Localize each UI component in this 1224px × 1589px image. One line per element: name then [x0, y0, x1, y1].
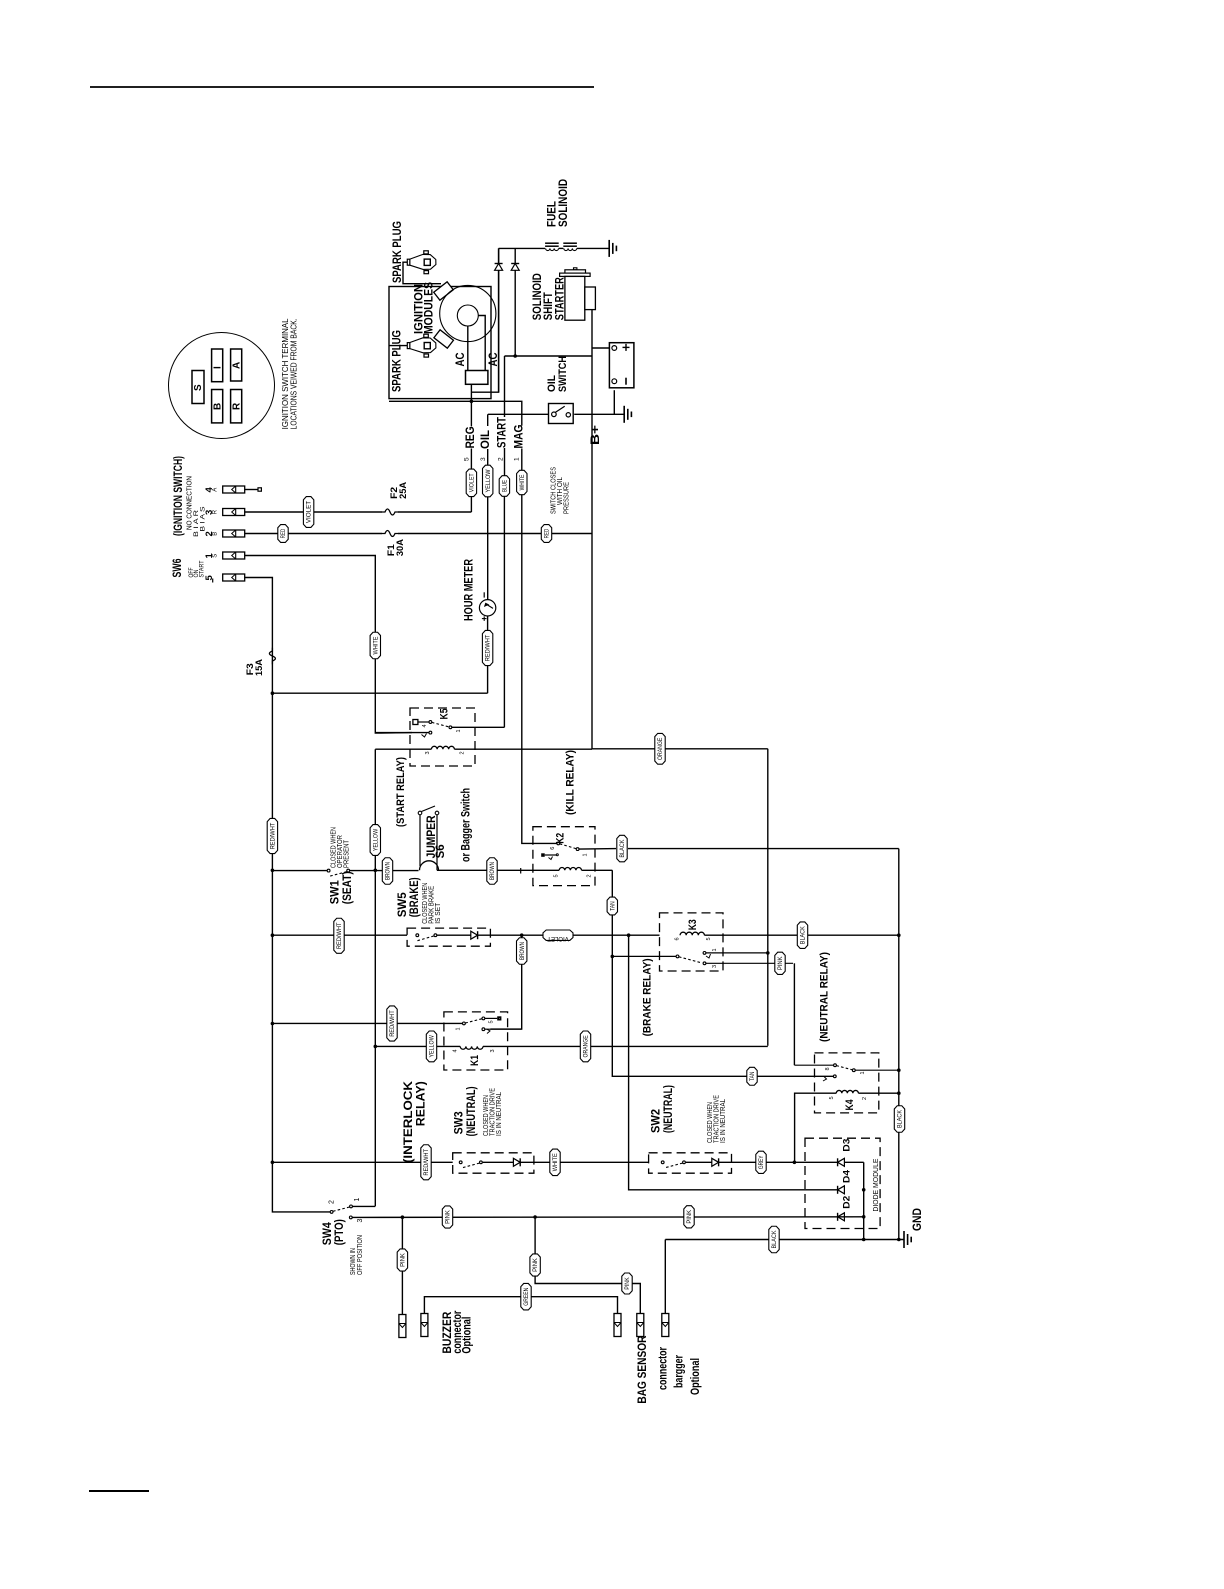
- svg-text:5: 5: [463, 457, 470, 461]
- svg-text:B: B: [212, 532, 218, 536]
- svg-text:WHITE: WHITE: [519, 475, 526, 491]
- svg-text:PRESSURE: PRESSURE: [564, 482, 571, 514]
- svg-text:BLACK: BLACK: [800, 925, 807, 944]
- svg-text:(BRAKE): (BRAKE): [409, 877, 421, 917]
- svg-text:START: START: [200, 560, 206, 577]
- svg-text:2: 2: [862, 1097, 868, 1100]
- svg-text:SHOWN IN: SHOWN IN: [350, 1248, 357, 1275]
- svg-text:D4: D4: [842, 1169, 853, 1183]
- svg-text:OIL: OIL: [480, 430, 492, 449]
- svg-text:5: 5: [489, 1020, 495, 1023]
- svg-text:SHIFT: SHIFT: [543, 292, 555, 320]
- svg-text:D3: D3: [842, 1139, 853, 1152]
- svg-text:1: 1: [456, 729, 462, 732]
- svg-text:3: 3: [357, 1219, 364, 1223]
- svg-text:15A: 15A: [254, 659, 265, 676]
- svg-text:2: 2: [587, 874, 593, 877]
- svg-text:2: 2: [497, 457, 504, 461]
- svg-text:IS IN NEUTRAL: IS IN NEUTRAL: [496, 1092, 503, 1136]
- svg-text:5: 5: [554, 874, 560, 877]
- svg-text:K3: K3: [687, 919, 699, 930]
- svg-text:(KILL RELAY): (KILL RELAY): [565, 750, 577, 815]
- svg-text:START: START: [497, 417, 509, 448]
- svg-text:A: A: [212, 488, 218, 492]
- svg-text:(BRAKE RELAY): (BRAKE RELAY): [642, 958, 654, 1036]
- svg-text:GREY: GREY: [758, 1155, 765, 1169]
- svg-text:PINK: PINK: [445, 1209, 452, 1224]
- svg-text:YELLOW: YELLOW: [429, 1035, 436, 1057]
- svg-text:B: B: [213, 403, 224, 410]
- svg-text:ORANGE: ORANGE: [583, 1035, 590, 1057]
- svg-text:(NEUTRAL): (NEUTRAL): [466, 1086, 478, 1136]
- svg-text:3: 3: [480, 457, 487, 461]
- svg-text:RELAY): RELAY): [414, 1081, 428, 1126]
- svg-text:BROWN: BROWN: [489, 862, 496, 880]
- svg-text:5: 5: [829, 1096, 835, 1099]
- svg-text:connector: connector: [658, 1347, 670, 1390]
- svg-text:SW5: SW5: [397, 892, 409, 918]
- svg-text:S: S: [212, 554, 218, 558]
- svg-text:(NEUTRAL): (NEUTRAL): [663, 1085, 675, 1133]
- svg-text:PINK: PINK: [686, 1209, 693, 1224]
- svg-text:PRESENT: PRESENT: [344, 839, 351, 868]
- svg-text:IS IN NEUTRAL: IS IN NEUTRAL: [720, 1099, 727, 1143]
- svg-text:VIOLET: VIOLET: [547, 935, 569, 942]
- svg-text:VIOLET: VIOLET: [306, 501, 313, 524]
- svg-text:B+: B+: [590, 425, 602, 445]
- svg-text:BLACK: BLACK: [619, 839, 626, 858]
- svg-text:RED/WHT: RED/WHT: [423, 1149, 430, 1176]
- svg-text:(PTO): (PTO): [334, 1219, 346, 1245]
- svg-text:SW4: SW4: [322, 1222, 334, 1246]
- svg-text:6: 6: [675, 937, 681, 940]
- svg-text:YELLOW: YELLOW: [372, 829, 379, 851]
- svg-text:5: 5: [706, 937, 712, 940]
- svg-text:I: I: [213, 366, 224, 369]
- svg-text:AC: AC: [455, 353, 467, 367]
- svg-text:or Bagger Switch: or Bagger Switch: [461, 788, 473, 862]
- svg-text:NO CONNECTION: NO CONNECTION: [187, 476, 194, 530]
- svg-text:1: 1: [712, 948, 718, 951]
- svg-text:1: 1: [456, 1027, 462, 1030]
- svg-text:8: 8: [825, 1067, 831, 1070]
- svg-text:B I A R: B I A R: [194, 509, 200, 537]
- svg-text:S: S: [193, 384, 204, 391]
- svg-text:2: 2: [460, 751, 466, 754]
- svg-text:SW1: SW1: [330, 880, 342, 905]
- svg-text:ORANGE: ORANGE: [657, 738, 664, 760]
- svg-text:3: 3: [712, 965, 718, 968]
- svg-text:BROWN: BROWN: [519, 942, 526, 960]
- svg-text:A: A: [232, 362, 243, 369]
- svg-text:bargger: bargger: [674, 1355, 686, 1388]
- svg-text:SOLINOID: SOLINOID: [558, 179, 570, 227]
- svg-text:FUEL: FUEL: [547, 201, 559, 227]
- svg-text:BROWN: BROWN: [385, 862, 392, 880]
- svg-text:Optional: Optional: [690, 1358, 702, 1395]
- svg-text:BLUE: BLUE: [502, 480, 509, 492]
- svg-text:BLACK: BLACK: [897, 1109, 904, 1128]
- svg-text:REG: REG: [465, 426, 477, 448]
- svg-text:(IGNITION SWITCH): (IGNITION SWITCH): [171, 456, 185, 536]
- svg-text:R: R: [232, 402, 243, 410]
- svg-text:2: 2: [329, 1200, 336, 1204]
- svg-text:MAG: MAG: [514, 424, 526, 448]
- svg-text:WHITE: WHITE: [552, 1153, 559, 1171]
- svg-text:LOCATIONS VEIWED FROM BACK.: LOCATIONS VEIWED FROM BACK.: [289, 318, 299, 429]
- svg-text:1: 1: [860, 1071, 866, 1074]
- svg-text:BLACK: BLACK: [771, 1230, 778, 1249]
- svg-text:OFF POSITION: OFF POSITION: [357, 1235, 364, 1275]
- svg-text:TAN: TAN: [749, 1072, 756, 1081]
- svg-text:K2: K2: [555, 833, 567, 844]
- svg-text:RED/WHT: RED/WHT: [336, 922, 343, 949]
- svg-text:4: 4: [453, 1049, 459, 1052]
- svg-text:HOUR METER: HOUR METER: [464, 558, 476, 621]
- svg-text:3: 3: [490, 1049, 496, 1052]
- svg-text:S6: S6: [435, 844, 447, 858]
- svg-text:GREEN: GREEN: [523, 1288, 530, 1306]
- svg-text:K1: K1: [469, 1055, 481, 1066]
- svg-text:TAN: TAN: [609, 901, 616, 910]
- svg-text:PINK: PINK: [624, 1277, 631, 1290]
- svg-text:(START RELAY): (START RELAY): [395, 757, 407, 827]
- svg-text:(SEAT): (SEAT): [342, 871, 354, 904]
- svg-text:RED/WHT: RED/WHT: [485, 635, 492, 662]
- svg-text:DIODE MODULE: DIODE MODULE: [873, 1158, 880, 1211]
- svg-text:IS SET: IS SET: [435, 902, 442, 924]
- svg-text:VIOLET: VIOLET: [469, 473, 476, 492]
- svg-text:(NEUTRAL RELAY): (NEUTRAL RELAY): [819, 952, 831, 1042]
- svg-text:RED/WHT: RED/WHT: [389, 1010, 396, 1037]
- svg-text:SWITCH: SWITCH: [557, 356, 569, 392]
- svg-text:YELLOW: YELLOW: [485, 469, 492, 492]
- svg-text:RED: RED: [280, 528, 287, 538]
- svg-text:K4: K4: [844, 1099, 856, 1111]
- svg-text:4: 4: [422, 724, 428, 727]
- svg-text:SW6: SW6: [170, 558, 184, 577]
- svg-text:BAG SENSOR: BAG SENSOR: [637, 1335, 649, 1404]
- svg-text:D2: D2: [842, 1196, 853, 1209]
- svg-text:RED/WHT: RED/WHT: [269, 823, 276, 850]
- svg-text:SW2: SW2: [651, 1109, 663, 1133]
- svg-text:GND: GND: [912, 1208, 924, 1231]
- svg-text:RED: RED: [544, 528, 551, 538]
- svg-text:MODULES: MODULES: [424, 282, 436, 334]
- svg-text:PINK: PINK: [532, 1257, 539, 1272]
- svg-text:1: 1: [354, 1198, 361, 1202]
- svg-text:SPARK PLUG: SPARK PLUG: [392, 221, 404, 283]
- svg-text:PINK: PINK: [777, 956, 784, 971]
- svg-text:30A: 30A: [395, 539, 406, 556]
- svg-text:5: 5: [204, 575, 215, 581]
- svg-text:R: R: [212, 509, 218, 514]
- svg-text:SPARK PLUG: SPARK PLUG: [392, 330, 404, 392]
- svg-text:25A: 25A: [398, 482, 409, 499]
- svg-text:3: 3: [425, 751, 431, 754]
- svg-text:1: 1: [513, 457, 520, 461]
- svg-text:Optional: Optional: [462, 1317, 474, 1354]
- svg-text:SW3: SW3: [454, 1111, 466, 1134]
- svg-text:K5: K5: [439, 709, 451, 720]
- svg-text:6: 6: [550, 847, 556, 850]
- svg-text:PINK: PINK: [399, 1252, 406, 1267]
- svg-text:WHITE: WHITE: [372, 637, 379, 655]
- svg-text:1: 1: [583, 853, 589, 856]
